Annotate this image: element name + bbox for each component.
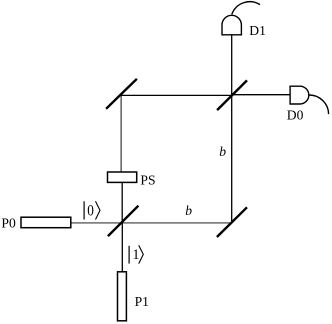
svg-text:b: b bbox=[185, 203, 192, 218]
svg-text:D0: D0 bbox=[287, 108, 304, 123]
svg-text:1: 1 bbox=[132, 247, 139, 263]
svg-text:PS: PS bbox=[140, 172, 155, 187]
svg-text:0: 0 bbox=[87, 203, 94, 220]
svg-text:P0: P0 bbox=[1, 215, 16, 230]
svg-text:D1: D1 bbox=[249, 23, 266, 38]
svg-text:P1: P1 bbox=[135, 294, 149, 309]
svg-text:b: b bbox=[219, 144, 226, 159]
